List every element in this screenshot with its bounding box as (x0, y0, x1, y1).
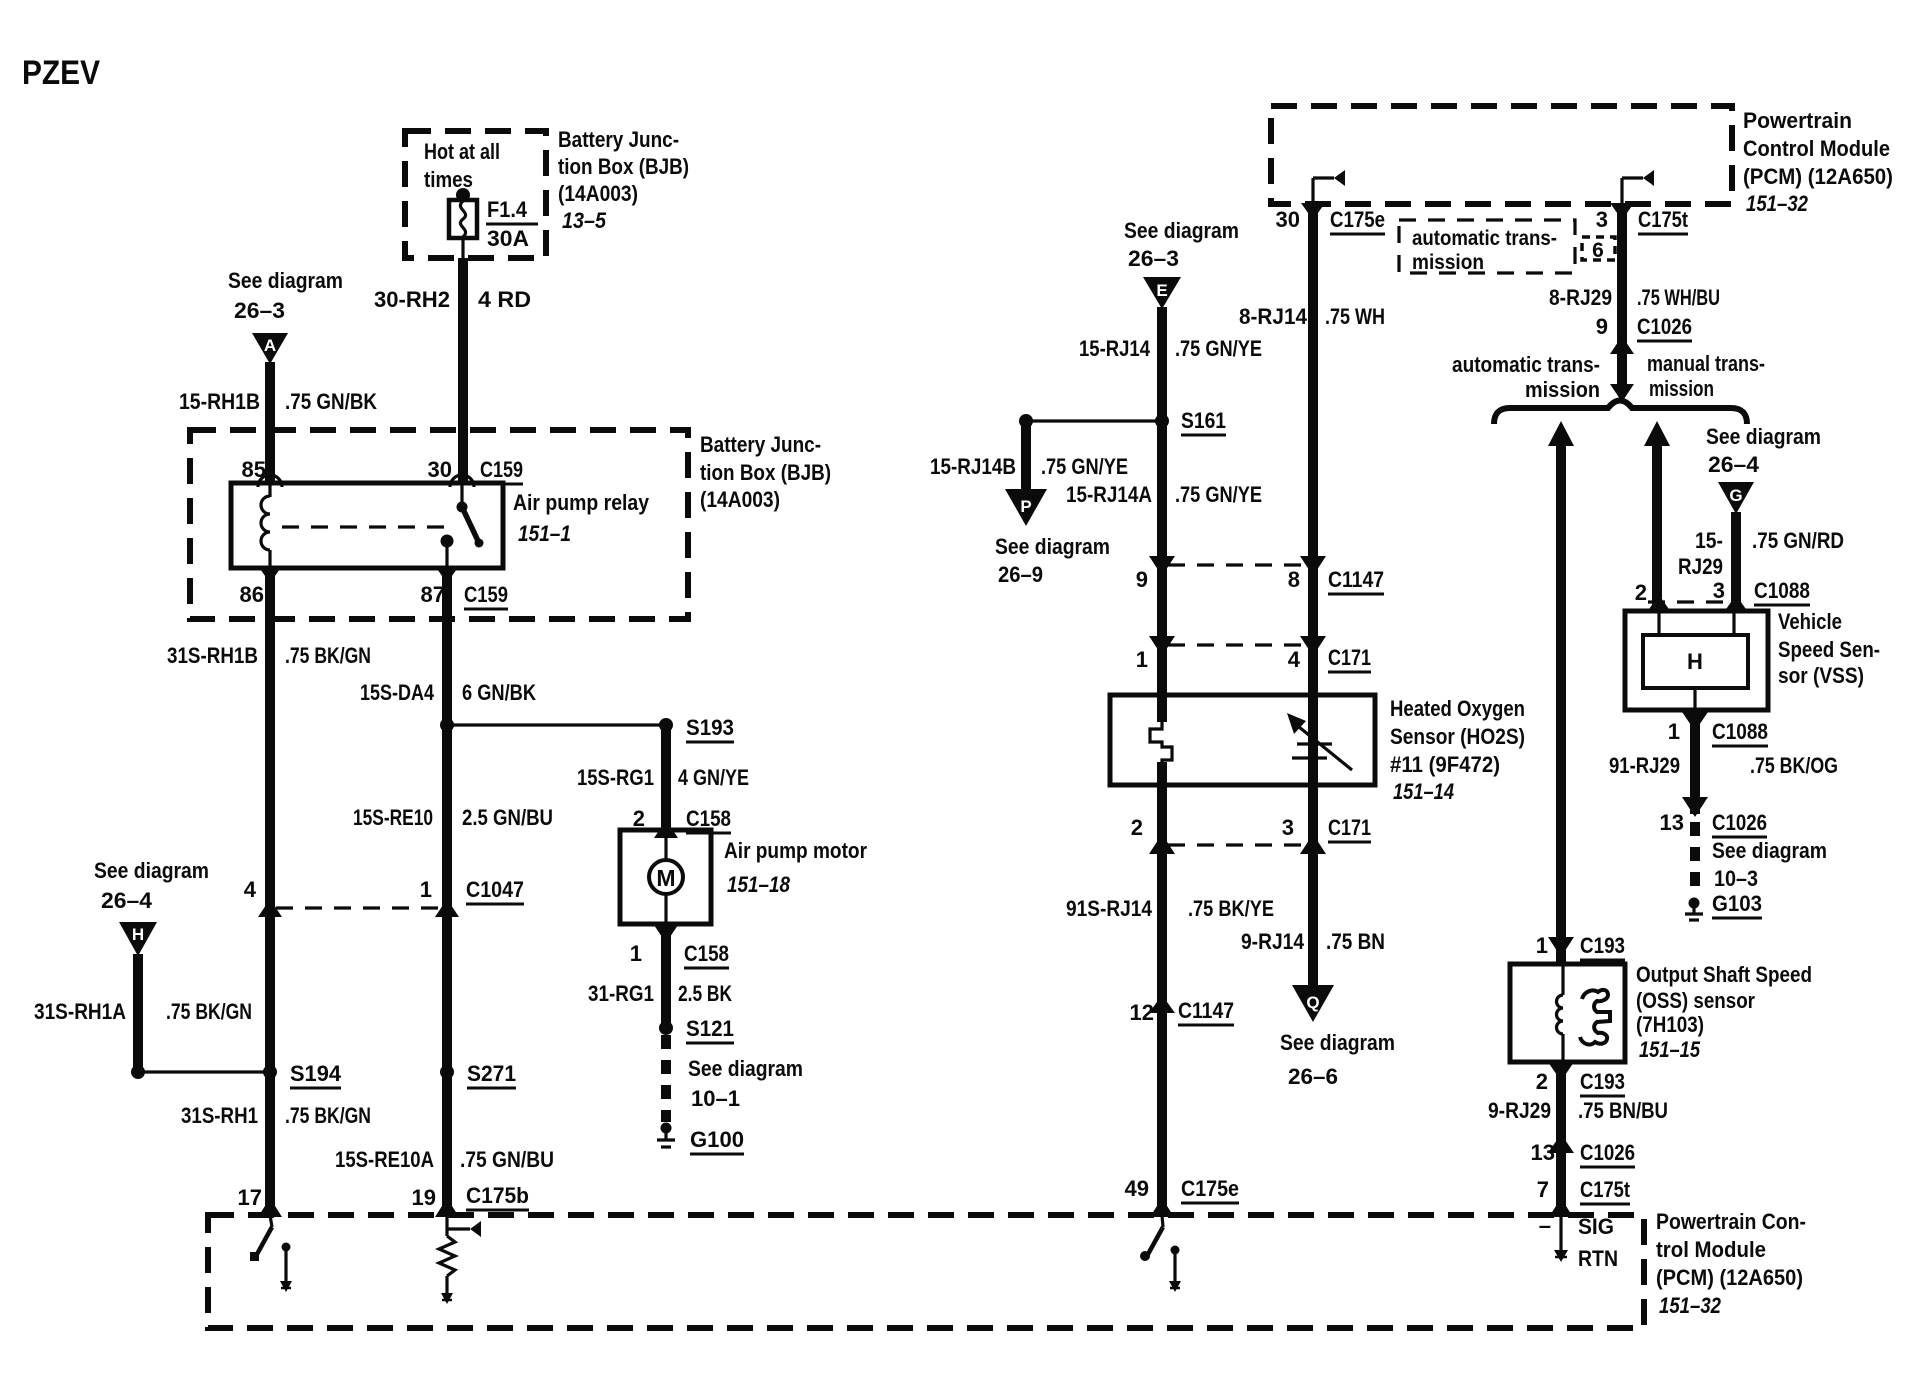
HO2S sensor element (1287, 713, 1352, 770)
label Air pump relay 151-1 (513, 490, 650, 546)
svg-text:SIG: SIG (1578, 1214, 1614, 1239)
wire 91-RJ29 below VSS (1682, 710, 1708, 814)
svg-text:3: 3 (1596, 207, 1608, 232)
svg-text:C171: C171 (1328, 815, 1371, 840)
pin 9 label (1136, 567, 1148, 592)
heated oxygen sensor box (1110, 695, 1375, 785)
PCM internal SIG RTN (1554, 1215, 1568, 1262)
label 31S-RH1B .75 BK/GN (167, 643, 371, 668)
svg-text:2.5 GN/BU: 2.5 GN/BU (462, 805, 553, 830)
svg-text:91-RJ29: 91-RJ29 (1609, 753, 1680, 778)
wire 8-RJ14 .75 WH (1308, 204, 1318, 985)
relay pin hooks at 85 and 30 (258, 475, 474, 487)
label 15S-RE10A .75 GN/BU (335, 1147, 554, 1172)
svg-text:.75 BN/BU: .75 BN/BU (1578, 1098, 1668, 1123)
svg-text:151–32: 151–32 (1659, 1293, 1722, 1318)
svg-text:.75 BN: .75 BN (1326, 929, 1385, 954)
svg-text:26–4: 26–4 (1708, 452, 1760, 477)
pin 4 label (1288, 647, 1301, 672)
connector C158 top label (686, 806, 731, 833)
svg-text:See diagram: See diagram (688, 1056, 803, 1081)
connector C1026 label (top) (1637, 314, 1692, 341)
svg-text:C159: C159 (480, 457, 523, 482)
label 31-RG1 2.5 BK (588, 981, 732, 1006)
svg-text:See diagram: See diagram (995, 534, 1110, 559)
svg-text:9: 9 (1596, 314, 1608, 339)
label 8-RJ14 .75 WH (1239, 304, 1385, 329)
label See diagram 26-9 (995, 534, 1110, 587)
pin 2 label (OSS) (1536, 1069, 1548, 1094)
wire 31S-RH1A (133, 954, 143, 1072)
connector C171 lower label (1328, 815, 1371, 842)
connector C175t bottom label (1580, 1177, 1631, 1204)
splice S193 junction (440, 718, 673, 732)
svg-text:(14A003): (14A003) (700, 487, 780, 512)
pin 1 label (OSS) (1536, 933, 1548, 958)
transmission branch bracket (1494, 401, 1747, 425)
connector C1088 top label (1754, 578, 1810, 605)
battery junction box (relay) dashed outline (190, 430, 688, 619)
svg-text:.75 BK/GN: .75 BK/GN (285, 1103, 371, 1128)
svg-text:15-RH1B: 15-RH1B (179, 389, 260, 414)
label Heated Oxygen Sensor (HO2S) #11 (9F472) 151-14 (1390, 696, 1525, 804)
connector C175e bottom label (1181, 1176, 1239, 1203)
svg-text:26–4: 26–4 (101, 888, 153, 913)
wire 30-RH2 4 RD (458, 258, 468, 484)
svg-text:Q: Q (1306, 993, 1319, 1012)
label Air pump motor 151-18 (724, 838, 867, 897)
svg-text:tion Box (BJB): tion Box (BJB) (558, 154, 689, 179)
label 15-RJ14B .75 GN/YE (930, 454, 1128, 479)
label Output Shaft Speed (OSS) sensor (7H103) 151-15 (1636, 962, 1812, 1062)
OSS coil (1557, 964, 1564, 1062)
svg-text:C1088: C1088 (1712, 719, 1768, 744)
svg-text:31S-RH1: 31S-RH1 (181, 1103, 258, 1128)
pin 49 label (1125, 1176, 1149, 1201)
pin 12 label (1130, 1000, 1154, 1025)
powertrain control module top dashed box (1271, 106, 1732, 204)
label F1.4 / 30A (486, 197, 538, 251)
svg-text:C171: C171 (1328, 645, 1371, 670)
pin 3 label (1596, 207, 1608, 232)
pin 9 label (1596, 314, 1608, 339)
connector C159 bottom label (464, 582, 508, 609)
svg-text:trol Module: trol Module (1656, 1237, 1766, 1262)
svg-text:87: 87 (421, 582, 445, 607)
connector C193 bottom label (1580, 1069, 1625, 1096)
svg-text:C193: C193 (1580, 933, 1625, 958)
svg-text:S121: S121 (686, 1016, 734, 1041)
svg-text:8-RJ14: 8-RJ14 (1239, 304, 1308, 329)
pin 8 label (1288, 567, 1300, 592)
wire 15-RJ14 vertical (1157, 307, 1167, 722)
wire manual transmission branch (1644, 421, 1670, 611)
label See diagram 26-3 (E) (1124, 218, 1239, 271)
connector C171 dashed link (1168, 643, 1307, 646)
svg-text:.75 GN/RD: .75 GN/RD (1752, 528, 1844, 553)
svg-text:C1026: C1026 (1637, 314, 1692, 339)
label 15-RJ14 .75 GN/YE (1079, 336, 1262, 361)
svg-text:C1026: C1026 (1580, 1140, 1635, 1165)
label 91S-RJ14 .75 BK/YE (1066, 896, 1274, 921)
label Hot at all times (424, 139, 500, 192)
ground G100 symbol (657, 1123, 675, 1148)
pin 2 label (633, 806, 645, 831)
label See diagram 26-4 (left) (94, 858, 209, 913)
svg-text:Air pump relay: Air pump relay (513, 490, 650, 515)
svg-text:C1147: C1147 (1178, 998, 1234, 1023)
svg-text:See diagram: See diagram (228, 268, 343, 293)
svg-text:9-RJ29: 9-RJ29 (1488, 1098, 1551, 1123)
svg-text:8-RJ29: 8-RJ29 (1549, 285, 1612, 310)
svg-text:Sensor (HO2S): Sensor (HO2S) (1390, 724, 1525, 749)
svg-text:.75 GN/YE: .75 GN/YE (1041, 454, 1128, 479)
svg-text:9-RJ14: 9-RJ14 (1241, 929, 1305, 954)
svg-text:15-RJ14B: 15-RJ14B (930, 454, 1016, 479)
wire 15S-RG1 4 GN/YE (661, 725, 671, 830)
svg-text:3: 3 (1282, 815, 1294, 840)
svg-text:.75 BK/GN: .75 BK/GN (285, 643, 371, 668)
svg-text:1: 1 (1136, 647, 1148, 672)
label S121 (686, 1016, 734, 1043)
connector C171 lower arrows (1149, 834, 1326, 854)
pin 87 label (421, 582, 445, 607)
pin 1 label (VSS) (1668, 719, 1680, 744)
pin 3 label (VSS) (1713, 578, 1725, 603)
svg-text:4 GN/YE: 4 GN/YE (678, 765, 749, 790)
pin 3 label (1282, 815, 1294, 840)
connector C175t top label (1638, 207, 1689, 234)
svg-text:17: 17 (238, 1185, 262, 1210)
svg-text:.75 BK/OG: .75 BK/OG (1750, 753, 1838, 778)
svg-text:S271: S271 (467, 1061, 516, 1086)
svg-text:PZEV: PZEV (22, 54, 100, 92)
dashed ground wire to G103 (1690, 822, 1700, 897)
svg-text:C1047: C1047 (466, 877, 524, 902)
svg-text:Hot at all: Hot at all (424, 139, 500, 164)
svg-text:49: 49 (1125, 1176, 1149, 1201)
svg-text:C159: C159 (464, 582, 508, 607)
svg-text:C175b: C175b (466, 1183, 529, 1208)
label automatic transmission (branch) (1452, 352, 1600, 402)
connector arrow into PCM at 7 (1549, 1198, 1573, 1217)
battery junction box (fuse) dashed outline (405, 131, 546, 258)
label See diagram 10-1 (688, 1056, 803, 1111)
connector arrow into PCM at 49 (1150, 1198, 1174, 1217)
label S161 (1181, 408, 1226, 435)
svg-text:4: 4 (1288, 647, 1301, 672)
svg-text:.75 GN/BU: .75 GN/BU (460, 1147, 554, 1172)
relay pin 86 arrow (258, 566, 282, 583)
label Powertrain Control Module (PCM) (12A650) 151-32 bottom (1656, 1209, 1806, 1318)
svg-text:26–3: 26–3 (234, 298, 285, 323)
svg-text:13: 13 (1531, 1140, 1555, 1165)
svg-text:E: E (1156, 281, 1167, 300)
connector C175b label (466, 1183, 529, 1210)
svg-text:6 GN/BK: 6 GN/BK (462, 680, 536, 705)
automatic transmission dashed box (1399, 220, 1575, 274)
relay coil (261, 483, 270, 568)
ground G103 symbol (1685, 898, 1703, 921)
label 31S-RH1A .75 BK/GN (34, 999, 252, 1024)
svg-text:C175e: C175e (1181, 1176, 1239, 1201)
svg-text:–: – (1539, 1213, 1551, 1238)
pin 2 label (1131, 815, 1143, 840)
svg-text:151–18: 151–18 (727, 872, 791, 897)
connector C1026 label (VSS) (1712, 810, 1767, 837)
connector C1147 mid label (1178, 998, 1234, 1025)
svg-text:13–5: 13–5 (562, 208, 607, 233)
label Vehicle Speed Sensor (VSS) (1778, 609, 1880, 688)
svg-text:RJ29: RJ29 (1678, 554, 1723, 579)
label 15-RH1B .75 GN/BK (179, 389, 377, 414)
label 15S-DA4 6 GN/BK (360, 680, 536, 705)
svg-text:G103: G103 (1712, 891, 1762, 916)
pin 86 label (240, 582, 264, 607)
svg-text:2.5 BK: 2.5 BK (678, 981, 732, 1006)
svg-text:S193: S193 (686, 715, 734, 740)
svg-text:15-RJ14: 15-RJ14 (1079, 336, 1151, 361)
pin 13 label (OSS) (1531, 1140, 1555, 1165)
HO2S heater element (1150, 722, 1172, 767)
pin 19 label (412, 1185, 436, 1210)
splice S194 junction wire (131, 1065, 277, 1079)
svg-text:RTN: RTN (1578, 1246, 1618, 1271)
svg-text:F1.4: F1.4 (487, 197, 528, 222)
svg-text:.75 GN/YE: .75 GN/YE (1175, 482, 1262, 507)
svg-text:.75 WH/BU: .75 WH/BU (1637, 285, 1720, 310)
label 91-RJ29 .75 BK/OG (1609, 753, 1838, 778)
relay internal dashed link (282, 525, 448, 528)
svg-text:Control Module: Control Module (1743, 136, 1890, 161)
label S271 (467, 1061, 516, 1088)
connector C1088 dashed link (1648, 600, 1733, 603)
svg-text:151–32: 151–32 (1746, 191, 1809, 216)
svg-text:Powertrain Con-: Powertrain Con- (1656, 1209, 1806, 1234)
svg-text:1: 1 (420, 877, 432, 902)
svg-text:8: 8 (1288, 567, 1300, 592)
svg-text:151–14: 151–14 (1393, 779, 1454, 804)
svg-text:C1026: C1026 (1712, 810, 1767, 835)
label 31S-RH1 .75 BK/GN (181, 1103, 371, 1128)
fuse F1.4 30A (449, 188, 477, 258)
powertrain control module bottom dashed box (208, 1215, 1644, 1328)
label 9-RJ14 .75 BN (1241, 929, 1385, 954)
svg-text:S161: S161 (1181, 408, 1226, 433)
label See diagram 10-3 (1712, 838, 1827, 891)
svg-text:Heated Oxygen: Heated Oxygen (1390, 696, 1525, 721)
label See diagram 26-4 (right) (1706, 424, 1821, 477)
relay switch (441, 484, 484, 568)
svg-text:1: 1 (1536, 933, 1548, 958)
connector E triangle (1143, 277, 1181, 309)
connector C1047 arrows (258, 899, 459, 917)
pin 17 label (238, 1185, 262, 1210)
connector arrow at motor bottom (654, 925, 678, 943)
connector arrows into VSS (1647, 595, 1748, 612)
svg-text:See diagram: See diagram (94, 858, 209, 883)
svg-text:See diagram: See diagram (1280, 1030, 1395, 1055)
svg-text:P: P (1020, 497, 1031, 516)
connector arrow at motor top (654, 820, 678, 838)
wire 31S-RH1B (pin 86 down) (265, 568, 275, 1215)
label 15-RJ29 .75 GN/RD (1678, 528, 1844, 579)
svg-text:86: 86 (240, 582, 264, 607)
svg-text:(14A003): (14A003) (558, 181, 638, 206)
svg-text:Battery Junc-: Battery Junc- (700, 432, 821, 457)
air pump relay box (231, 483, 503, 568)
label S194 (290, 1061, 342, 1088)
connector C1147 dashed link (1168, 563, 1307, 566)
dashed ground wire to G100 (661, 1035, 671, 1122)
svg-text:(7H103): (7H103) (1636, 1012, 1704, 1037)
connector C159 top label (480, 457, 523, 484)
wire 15-RJ29 .75 GN/RD (1731, 512, 1741, 611)
svg-text:Battery Junc-: Battery Junc- (558, 127, 679, 152)
svg-text:mission: mission (1525, 377, 1600, 402)
connector arrow above C1026 (1682, 797, 1708, 817)
svg-text:C158: C158 (686, 806, 731, 831)
svg-text:91S-RJ14: 91S-RJ14 (1066, 896, 1153, 921)
svg-text:4: 4 (244, 877, 257, 902)
svg-text:30: 30 (428, 457, 452, 482)
svg-text:C193: C193 (1580, 1069, 1625, 1094)
svg-text:30A: 30A (487, 226, 529, 251)
svg-text:#11 (9F472): #11 (9F472) (1390, 752, 1500, 777)
wire 15-RH1B (265, 362, 275, 483)
svg-text:manual trans-: manual trans- (1647, 351, 1765, 376)
svg-text:Output Shaft Speed: Output Shaft Speed (1636, 962, 1812, 987)
svg-text:15S-RE10: 15S-RE10 (353, 805, 433, 830)
connector C1147 label (1328, 567, 1384, 594)
svg-text:(PCM) (12A650): (PCM) (12A650) (1656, 1265, 1803, 1290)
svg-text:Air pump motor: Air pump motor (724, 838, 867, 863)
wire 15S-DA4 (pin 87 down) (442, 568, 452, 1215)
svg-text:See diagram: See diagram (1712, 838, 1827, 863)
svg-text:.75 GN/YE: .75 GN/YE (1175, 336, 1262, 361)
pin 1 label (420, 877, 432, 902)
svg-text:.75 WH: .75 WH (1325, 304, 1385, 329)
svg-text:Speed Sen-: Speed Sen- (1778, 637, 1880, 662)
svg-text:times: times (424, 167, 473, 192)
connector Q arrow (1292, 985, 1334, 1022)
connector C171 arrows (1149, 636, 1326, 656)
wire 31-RG1 2.5 BK (661, 926, 671, 1028)
splice S271 (440, 1065, 454, 1079)
svg-text:10–1: 10–1 (691, 1086, 740, 1111)
connector 6 dashed box (1582, 237, 1615, 262)
connector C1088 bottom label (1712, 719, 1768, 746)
label Powertrain Control Module (PCM) (12A650) 151-32 top (1743, 108, 1893, 216)
svg-text:H: H (1687, 649, 1703, 674)
svg-text:31-RG1: 31-RG1 (588, 981, 654, 1006)
label Battery Junction Box (BJB) (14A003) 13-5 (558, 127, 689, 233)
svg-text:Vehicle: Vehicle (1778, 609, 1842, 634)
svg-text:2: 2 (1635, 580, 1647, 605)
svg-text:15S-RE10A: 15S-RE10A (335, 1147, 434, 1172)
svg-text:automatic trans-: automatic trans- (1452, 352, 1600, 377)
svg-text:G: G (1729, 486, 1742, 505)
svg-text:6: 6 (1592, 239, 1604, 262)
svg-text:See diagram: See diagram (1124, 218, 1239, 243)
connector C175e top label (1330, 207, 1385, 234)
pin 1 label (1136, 647, 1148, 672)
connector C1147 mid arrow (1149, 995, 1175, 1013)
svg-text:1: 1 (1668, 719, 1680, 744)
label 8-RJ29 .75 WH/BU (1549, 285, 1720, 310)
connector C158 bottom label (684, 941, 729, 968)
svg-text:9: 9 (1136, 567, 1148, 592)
svg-text:S194: S194 (290, 1061, 342, 1086)
connector C171 lower dashed link (1168, 843, 1307, 846)
svg-text:7: 7 (1537, 1177, 1549, 1202)
label S193 (686, 715, 734, 742)
svg-text:See diagram: See diagram (1706, 424, 1821, 449)
label Battery Junction Box (BJB) (14A003) right (700, 432, 831, 512)
svg-text:A: A (264, 336, 276, 355)
svg-text:H: H (132, 925, 144, 944)
label See diagram 26-3 (left) (228, 268, 343, 323)
connector A triangle (252, 333, 288, 364)
wire 91S-RJ14 below HO2S (1157, 762, 1167, 1215)
svg-text:C1147: C1147 (1328, 567, 1384, 592)
svg-text:C175e: C175e (1330, 207, 1385, 232)
PCM internal switch at pin 49 (1140, 1215, 1163, 1261)
svg-text:26–6: 26–6 (1288, 1064, 1338, 1089)
pin 7 label (1537, 1177, 1549, 1202)
svg-text:automatic trans-: automatic trans- (1412, 227, 1557, 250)
svg-text:15S-DA4: 15S-DA4 (360, 680, 435, 705)
vehicle speed sensor box (1625, 611, 1768, 710)
connector arrows into PCM at 17 and 19 (258, 1198, 459, 1217)
pin 4 label (244, 877, 257, 902)
connector C171 label (1328, 645, 1371, 672)
pin 30 label (428, 457, 452, 482)
PCM internal contact at pin 17 (280, 1243, 292, 1293)
connector C193 top label (1580, 933, 1625, 960)
svg-text:26–9: 26–9 (998, 562, 1043, 587)
svg-text:mission: mission (1649, 376, 1714, 401)
svg-text:2: 2 (1536, 1069, 1548, 1094)
svg-text:4 RD: 4 RD (478, 287, 531, 312)
svg-text:Powertrain: Powertrain (1743, 108, 1852, 133)
svg-text:30-RH2: 30-RH2 (374, 287, 450, 312)
svg-text:3: 3 (1713, 578, 1725, 603)
connector C1047 dashed link (276, 906, 442, 909)
svg-text:M: M (656, 865, 675, 891)
connector H triangle (119, 922, 157, 956)
title PZEV (22, 54, 100, 92)
svg-text:(PCM) (12A650): (PCM) (12A650) (1743, 164, 1893, 189)
label G103 (1712, 891, 1762, 918)
svg-text:.75 BK/GN: .75 BK/GN (166, 999, 252, 1024)
label 15-RJ14A .75 GN/YE (1066, 482, 1262, 507)
connector C1026 label (OSS) (1580, 1140, 1635, 1167)
svg-text:12: 12 (1130, 1000, 1154, 1025)
svg-text:26–3: 26–3 (1128, 246, 1179, 271)
pin 85 label (242, 457, 266, 482)
svg-text:15S-RG1: 15S-RG1 (577, 765, 654, 790)
pin 1 label (630, 941, 642, 966)
label G100 (690, 1127, 744, 1154)
relay pin 87 arrow (435, 566, 459, 583)
wire automatic transmission branch (1548, 421, 1574, 1215)
label 15S-RG1 4 GN/YE (577, 765, 749, 790)
pin 30 label (1276, 207, 1300, 232)
connector C1147 arrows (1149, 556, 1326, 576)
svg-text:13: 13 (1660, 810, 1684, 835)
svg-text:sor (VSS): sor (VSS) (1778, 663, 1864, 688)
